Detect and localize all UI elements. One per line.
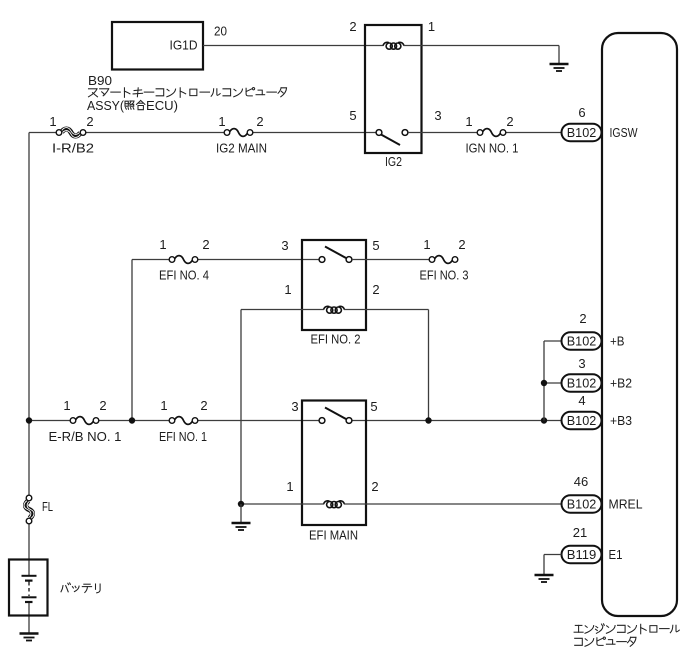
svg-text:EFI NO. 1: EFI NO. 1 [159,429,207,444]
svg-text:FL: FL [42,499,53,514]
label EFI NO. 3 [420,268,469,283]
pin 6 label [578,105,585,120]
fusible link I-R/B2 [56,128,86,138]
pin 1 of I-R/B2 [49,114,56,129]
svg-text:B102: B102 [567,125,597,140]
label EFI NO. 2 [311,332,361,347]
svg-text:1: 1 [49,114,56,129]
svg-text:2: 2 [349,19,356,34]
pin 2 of IGN NO. 1 [506,114,513,129]
label ASSY(照合ECU) [87,98,178,113]
terminal label +B2 [610,376,632,391]
connector B102 IGSW [562,124,602,142]
svg-text:EFI MAIN: EFI MAIN [309,528,358,543]
pin 1 of IG2 MAIN [218,114,225,129]
wire: top row B90 to IG2 relay [29,132,379,134]
pin 1 of EFI NO. 4 [159,237,166,252]
pin 4 label [578,393,585,408]
pin 21 label [573,525,587,540]
fuse EFI NO. 4 [169,256,198,264]
pin 2 of EFI NO. 1 [200,398,207,413]
pin 3 label [578,356,585,371]
relay EFI MAIN contacts [319,408,352,424]
pin 3 of IG2 [434,108,441,123]
junction at +B2 [541,380,547,386]
label B90 [88,73,112,88]
terminal label IGSW [610,125,639,140]
wire: EFI NO.2 coil pin 2 down to +B3 row [344,310,429,421]
junction at EFI NO.2 coil branch [425,417,431,423]
terminal label MREL [609,497,643,512]
label コンピュータ [575,637,636,646]
svg-text:2: 2 [371,479,378,494]
svg-text:B119: B119 [567,547,597,562]
svg-text:IG2 MAIN: IG2 MAIN [216,141,267,156]
pin 2 of EFI NO. 2 [372,282,379,297]
svg-text:ASSY(: ASSY( [87,98,125,113]
label E-R/B NO. 1 [49,429,122,444]
terminal label +B [610,334,625,349]
ECU box [602,33,677,616]
wire: EFI NO.2 coil pin 1 down to EFI MAIN coil [241,310,324,505]
svg-text:46: 46 [574,474,588,489]
junction at EFI NO.4 branch [129,417,135,423]
svg-text:1: 1 [284,282,291,297]
svg-text:5: 5 [370,399,377,414]
svg-text:B102: B102 [567,334,597,349]
battery バッテリ [9,560,48,616]
wire: EFI NO.2 pin 5 to EFI NO.3 [352,259,432,261]
pin 1 of IG2 [428,19,435,34]
label スマートキーコントロールコンピュータ [89,88,287,98]
pin 2 of EFI NO. 3 [458,237,465,252]
svg-text:20: 20 [214,24,227,39]
ground (EFI MAIN coil) [232,523,251,530]
label IGN NO. 1 [466,141,519,156]
svg-text:3: 3 [281,238,288,253]
svg-text:2: 2 [86,114,93,129]
junction at +B vertical [541,417,547,423]
label EFI NO. 1 [159,429,207,444]
wire: IG1D pin 20 to IG2 coil [203,45,384,47]
svg-text:5: 5 [349,108,356,123]
svg-text:2: 2 [372,282,379,297]
label IG2 MAIN [216,141,267,156]
junction at battery feed [26,417,32,423]
relay EFI NO. 2 contacts [319,247,352,263]
relay EFI NO. 2 coil [324,306,345,313]
ground (battery) [20,634,39,641]
pin 1 of EFI MAIN [286,479,293,494]
svg-text:IG2: IG2 [385,154,402,169]
connector B119 E1 [562,546,602,564]
pin 1 of EFI NO. 1 [160,398,167,413]
svg-text:B102: B102 [567,413,597,428]
label EFI MAIN [309,528,358,543]
relay EFI NO. 2 box [302,240,366,330]
pin 1 of EFI NO. 2 [284,282,291,297]
pin 1 of EFI NO. 3 [423,237,430,252]
pin 2 of E-R/B NO. 1 [99,398,106,413]
svg-text:ECU): ECU) [146,98,178,113]
pin 1 of E-R/B NO. 1 [63,398,70,413]
svg-text:MREL: MREL [609,497,643,512]
wire: EFI MAIN coil row to MREL [241,503,562,505]
wire: row EFI NO.4 to EFI NO.2 contact [132,259,322,261]
pin 20 label [214,24,227,39]
connector B102 +B [562,332,602,350]
wire: main row E-R/B NO.1 to +B3 [29,420,562,422]
pin 1 of IGN NO. 1 [465,114,472,129]
fuse EFI NO. 3 [429,256,458,264]
svg-text:3: 3 [434,108,441,123]
ground (IG2 coil) [550,64,569,71]
label バッテリ [61,583,100,593]
relay EFI MAIN coil [324,501,345,508]
svg-text:2: 2 [256,114,263,129]
pin 3 of EFI NO. 2 [281,238,288,253]
wire: EFI NO.4 branch vertical [131,260,133,421]
relay IG2 contacts [376,130,408,145]
wire: IG2 pin 3 to IGSW [408,132,562,134]
svg-text:B102: B102 [567,497,597,512]
label エンジンコントロール [574,624,679,634]
fusible link FL [24,495,34,524]
fuse EFI NO. 1 [169,417,198,425]
component B90 smart key control computer box (IG1D) [112,22,203,70]
svg-text:IGSW: IGSW [610,125,639,140]
wire: battery feed left vertical [28,133,30,634]
svg-text:2: 2 [99,398,106,413]
ground (E1) [535,575,554,582]
svg-text:+B2: +B2 [610,376,632,391]
fuse IGN NO. 1 [477,129,506,137]
svg-text:1: 1 [428,19,435,34]
label EFI NO. 4 [159,268,209,283]
relay EFI MAIN box [302,401,366,526]
connector B102 +B2 [562,374,602,392]
wire: E1 to ground [544,555,562,576]
svg-text:1: 1 [423,237,430,252]
connector B102 +B3 [562,412,602,430]
svg-text:6: 6 [578,105,585,120]
svg-text:IG1D: IG1D [170,38,198,53]
svg-text:EFI NO. 2: EFI NO. 2 [311,332,361,347]
pin 46 label [574,474,588,489]
fuse E-R/B NO. 1 [70,417,99,425]
label I-R/B2 [52,141,94,156]
svg-text:1: 1 [160,398,167,413]
svg-text:I-R/B2: I-R/B2 [52,141,94,156]
wire: coil junction to ground [240,504,242,523]
svg-text:3: 3 [291,399,298,414]
svg-text:+B3: +B3 [610,413,632,428]
pin 5 of EFI NO. 2 [372,238,379,253]
terminal label +B3 [610,413,632,428]
svg-text:2: 2 [579,311,586,326]
svg-text:EFI NO. 4: EFI NO. 4 [159,268,209,283]
svg-text:1: 1 [159,237,166,252]
svg-text:E-R/B NO. 1: E-R/B NO. 1 [49,429,122,444]
svg-text:1: 1 [465,114,472,129]
label IG2 [385,154,402,169]
junction at EFI MAIN coil ground [238,501,244,507]
svg-text:2: 2 [458,237,465,252]
svg-text:2: 2 [202,237,209,252]
terminal label E1 [609,547,623,562]
svg-text:5: 5 [372,238,379,253]
pin 2 of IG2 MAIN [256,114,263,129]
relay IG2 box [365,25,422,153]
pin 2 of EFI NO. 4 [202,237,209,252]
label FL [42,499,53,514]
pin 5 of IG2 [349,108,356,123]
connector B102 MREL [562,495,602,513]
svg-text:4: 4 [578,393,585,408]
svg-text:+B: +B [610,334,625,349]
pin 5 of EFI MAIN [370,399,377,414]
pin 2 of EFI MAIN [371,479,378,494]
pin 2 of I-R/B2 [86,114,93,129]
svg-text:21: 21 [573,525,587,540]
svg-text:1: 1 [63,398,70,413]
svg-text:IGN NO. 1: IGN NO. 1 [466,141,519,156]
pin 3 of EFI MAIN [291,399,298,414]
svg-text:1: 1 [218,114,225,129]
wire: +B bus vertical [544,341,562,421]
relay IG2 coil [383,42,404,49]
svg-text:3: 3 [578,356,585,371]
svg-text:2: 2 [506,114,513,129]
fuse IG2 MAIN [224,129,253,137]
pin 2 of IG2 [349,19,356,34]
svg-text:EFI NO. 3: EFI NO. 3 [420,268,469,283]
svg-text:1: 1 [286,479,293,494]
svg-text:B90: B90 [88,73,112,88]
pin 2 label [579,311,586,326]
wire: IG2 pin 1 to ground [404,46,560,64]
svg-text:B102: B102 [567,376,597,391]
svg-text:E1: E1 [609,547,623,562]
svg-text:2: 2 [200,398,207,413]
